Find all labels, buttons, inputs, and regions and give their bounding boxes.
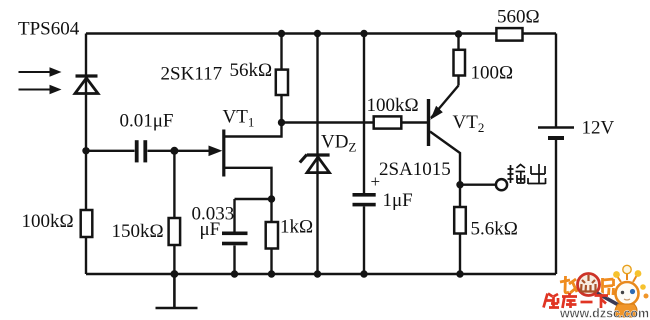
resistor 56k (276, 70, 288, 95)
light arrow 2 (19, 85, 62, 94)
wire right rail lower (555, 139, 557, 274)
wire VT2 collector diagonal (430, 132, 460, 185)
svg-text:1kΩ: 1kΩ (280, 217, 313, 238)
watermark mascot (613, 265, 648, 317)
node top rail 56k (278, 30, 285, 37)
svg-text:100kΩ: 100kΩ (367, 95, 419, 116)
wire gate left segment (86, 150, 135, 152)
label 5.6k (471, 219, 518, 240)
node bottom 150k ground (171, 270, 179, 278)
svg-text:100Ω: 100Ω (471, 63, 514, 84)
label 100k left (22, 211, 74, 232)
wire 150k branch (173, 151, 175, 274)
photodiode TPS604 (75, 76, 98, 94)
svg-text:56kΩ: 56kΩ (230, 60, 273, 81)
label 0.01uF (120, 111, 174, 132)
node bottom C3 (231, 270, 238, 277)
capacitor 0.01uF (135, 140, 147, 162)
label 56k (230, 60, 273, 81)
wire top rail (86, 32, 556, 34)
label VT1 (223, 107, 255, 130)
wire 5.6k branch (459, 185, 461, 274)
label 100 (471, 63, 514, 84)
wire 100ohm branch (457, 34, 459, 86)
node gate 150k (170, 147, 178, 155)
node collector output (456, 181, 463, 188)
wire right rail upper (555, 34, 557, 128)
node bottom 1k (268, 270, 275, 277)
label 1k (280, 217, 313, 238)
battery 12V (538, 128, 574, 141)
node top rail C4 (360, 30, 367, 37)
resistor 1k (266, 222, 278, 249)
wire 56k branch (280, 34, 282, 123)
watermark logo 找芯片 with magnifier and mascot (560, 274, 623, 308)
watermark www.dzsc.com (559, 307, 649, 320)
wire output stub (460, 183, 496, 185)
wire C3 lower lead (233, 246, 235, 275)
label output 输出 (drawn glyphs) (508, 164, 546, 184)
label 150k (112, 221, 164, 242)
node bottom 5.6k (456, 270, 463, 277)
svg-text:12V: 12V (582, 118, 615, 139)
node bottom C4 (360, 270, 367, 277)
node top rail VDz (314, 30, 321, 37)
label uF (200, 219, 221, 240)
wire C4 branch lower (363, 207, 365, 275)
transistor Q VT2 (429, 99, 443, 146)
capacitor 0.033uF (222, 232, 248, 246)
resistor 100k base (374, 116, 402, 128)
svg-text:100kΩ: 100kΩ (22, 211, 74, 232)
svg-text:TPS604: TPS604 (18, 19, 80, 40)
node source (268, 195, 275, 202)
wire VT2 emitter diagonal (431, 86, 459, 119)
label 2SA1015 (379, 159, 451, 180)
label TPS604 (18, 19, 80, 40)
node bottom VDz (314, 270, 321, 277)
svg-text:μF: μF (200, 219, 221, 240)
label 2SK117 (161, 64, 223, 85)
label 0.033 (192, 204, 235, 225)
ground (156, 274, 198, 308)
wire VT1 source lead (225, 168, 272, 199)
resistor 150k (169, 218, 181, 245)
label 1uF (383, 190, 413, 211)
wire base wire (282, 121, 428, 123)
wire C4 branch upper (363, 34, 365, 194)
capacitor 1uF electrolytic (353, 193, 376, 206)
wire left rail (85, 34, 87, 275)
output terminal (496, 179, 507, 190)
wire bottom rail (86, 273, 556, 275)
resistor 5.6k (454, 207, 466, 234)
svg-text:VT2: VT2 (453, 112, 485, 135)
wire C3 upper lead (233, 199, 235, 232)
svg-text:VDZ: VDZ (321, 132, 356, 155)
label 560 (497, 7, 540, 28)
label plus (371, 172, 381, 191)
wire gate right segment with arrow into VT1 (148, 146, 223, 157)
wire VT1 drain lead (225, 123, 282, 137)
svg-text:5.6kΩ: 5.6kΩ (471, 219, 518, 240)
resistor 560 (496, 28, 522, 40)
label VDz (321, 132, 356, 155)
wire source node to C3 (235, 198, 272, 200)
watermark 维库一下 (544, 293, 609, 308)
svg-text:VT1: VT1 (223, 107, 255, 130)
svg-text:2SK117: 2SK117 (161, 64, 223, 85)
resistor 100k left (81, 210, 93, 237)
label 12V (582, 118, 615, 139)
wire VDz branch (316, 34, 318, 275)
zener diode VDz (300, 155, 330, 173)
svg-text:www.dzsc.com: www.dzsc.com (559, 307, 649, 320)
label VT2 (453, 112, 485, 135)
svg-text:560Ω: 560Ω (497, 7, 540, 28)
wire source node to 1k (270, 199, 272, 274)
node gate input (82, 147, 89, 154)
svg-text:0.01μF: 0.01μF (120, 111, 174, 132)
node top rail 100ohm (455, 30, 462, 37)
svg-text:150kΩ: 150kΩ (112, 221, 164, 242)
svg-text:1μF: 1μF (383, 190, 413, 211)
node drain 56k (278, 119, 285, 126)
svg-text:2SA1015: 2SA1015 (379, 159, 451, 180)
transistor VT1 channel bar (222, 130, 225, 177)
label 100k base (367, 95, 419, 116)
svg-text:+: + (371, 172, 381, 191)
light arrow 1 (19, 67, 62, 76)
resistor 100 (454, 50, 466, 76)
